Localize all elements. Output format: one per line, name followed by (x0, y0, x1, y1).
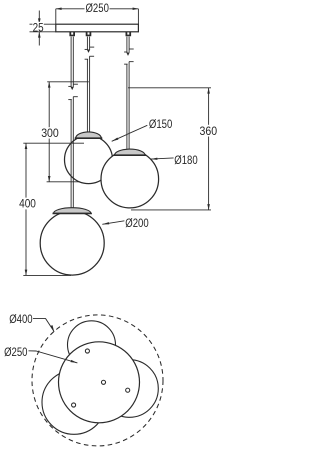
medium sphere (D180) (101, 150, 159, 208)
svg-text:Ø180: Ø180 (174, 153, 198, 167)
mounting hole 3 (126, 388, 130, 392)
svg-text:25: 25 (33, 20, 44, 34)
fitting dome small (76, 132, 102, 138)
plan sphere small (68, 321, 116, 369)
rod 1 (large sphere) with break (68, 37, 78, 208)
leader D200 (102, 221, 124, 225)
dimension 360 (128, 88, 211, 210)
fitting dome medium (115, 149, 145, 155)
svg-text:Ø400: Ø400 (9, 312, 33, 326)
dimension 300 (47, 82, 89, 182)
large sphere (D200) (40, 211, 104, 275)
small sphere (D150) (65, 136, 113, 184)
svg-text:Ø250: Ø250 (4, 345, 28, 359)
cord connector 3 under plate (126, 32, 132, 36)
plan sphere large (42, 370, 106, 434)
svg-text:Ø150: Ø150 (149, 117, 173, 131)
cord connector 2 under plate (86, 32, 92, 36)
svg-text:Ø200: Ø200 (125, 216, 149, 230)
svg-text:400: 400 (19, 197, 36, 211)
dimension 25 (30, 11, 56, 46)
svg-text:Ø250: Ø250 (86, 1, 110, 15)
dashed circle D400 (32, 315, 163, 446)
leader D180 (151, 158, 174, 159)
leader D400 (33, 319, 54, 332)
svg-text:360: 360 (200, 124, 218, 138)
mounting hole 4 (72, 403, 76, 407)
mounting hole 1 (85, 349, 89, 353)
dimension 400 (23, 143, 84, 275)
mounting hole 2 (101, 380, 105, 384)
dimension D250 line (56, 9, 139, 24)
cord connector 1 under plate (69, 32, 75, 36)
leader D150 (112, 125, 148, 141)
svg-text:300: 300 (41, 126, 59, 140)
label 25 (32, 22, 43, 30)
rod 2 (small sphere) with break (85, 37, 95, 132)
fitting dome large (54, 208, 91, 214)
plan canopy circle (59, 342, 140, 423)
canopy plate (56, 24, 139, 32)
rod 3 (medium sphere) with break (124, 37, 134, 150)
plan sphere medium (101, 360, 159, 418)
leader D250 plan (29, 351, 78, 363)
